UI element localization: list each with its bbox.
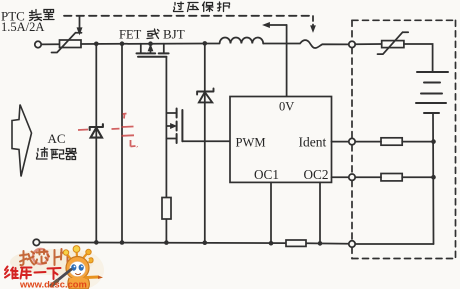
pin label PWM xyxy=(236,135,266,149)
gate resistor R1 (vertical) xyxy=(162,198,171,220)
eyes xyxy=(71,264,76,270)
glyph 维 xyxy=(5,267,18,279)
wire battery negative down xyxy=(432,113,435,244)
pin label OC2 xyxy=(304,167,329,182)
watermark artistic text 找芯片 xyxy=(20,249,68,266)
wire terminal to R3 and R3 to battery line xyxy=(355,141,433,143)
battery terminal circle bottom xyxy=(349,241,355,247)
svg-text:OC1: OC1 xyxy=(254,167,279,182)
svg-text:BJT: BJT xyxy=(163,27,185,42)
arrow pointing left above rail xyxy=(263,23,286,28)
svg-text:FET: FET xyxy=(119,28,142,42)
glyph 过 xyxy=(174,2,184,12)
glyph 找 xyxy=(20,251,34,265)
glyph 护 xyxy=(218,2,230,12)
wire OC2-level right pin to terminal xyxy=(332,176,349,178)
gate pulldown branch: Q1 gate down to Q2 and resistor xyxy=(165,57,167,243)
svg-text:PWM: PWM xyxy=(236,135,266,149)
glyph 一 xyxy=(35,271,46,274)
wire top rail (PTC to inductor) xyxy=(81,43,205,46)
watermark halo xyxy=(10,249,94,275)
bottom rail wire xyxy=(40,242,349,243)
wire 0V sense branch vertical xyxy=(286,25,288,97)
glyph 装 xyxy=(30,10,42,21)
inductor L1 xyxy=(205,38,263,44)
junction gate resistor / bottom rail xyxy=(164,240,169,245)
pin label 0V xyxy=(279,100,294,114)
ident series resistor R3 xyxy=(381,138,402,145)
node dot top of second branch xyxy=(120,41,125,46)
wire pack PTC to battery xyxy=(404,44,433,72)
svg-text:1.5A/2A: 1.5A/2A xyxy=(1,20,44,34)
battery terminal circle top xyxy=(349,41,355,47)
node dot Q1 body to rail xyxy=(148,41,153,46)
junction zener branch / bottom rail xyxy=(203,240,208,245)
Q1 body stub with arrow xyxy=(150,48,152,53)
hood xyxy=(66,257,89,280)
glyph 保 xyxy=(203,2,214,12)
watermark red text 维库一下 xyxy=(5,267,61,280)
wire Q2 gate to PWM pin xyxy=(182,140,230,142)
junction TVS branch / bottom rail xyxy=(94,240,99,245)
PTC thermistor RT1 xyxy=(52,33,82,53)
red watermark fragments mid-left xyxy=(78,114,138,148)
output terminal circle bottom-left xyxy=(33,239,39,245)
AC adapter block arrow xyxy=(12,105,32,177)
junction second branch / bottom rail xyxy=(120,240,125,245)
mouth xyxy=(76,274,81,275)
body xyxy=(68,278,89,289)
svg-text:Ident: Ident xyxy=(299,135,327,150)
wire top rail left (terminal to PTC) xyxy=(41,43,59,45)
arm with rod xyxy=(86,276,98,280)
wire terminal to pack PTC xyxy=(355,43,382,45)
junction OC2 pin / bottom rail xyxy=(318,241,323,246)
pin label OC1 xyxy=(254,167,279,182)
switching transistor Q2 (N-MOSFET) drain stub xyxy=(166,112,175,114)
svg-text:0V: 0V xyxy=(279,100,294,114)
Q1 drain stub xyxy=(163,44,165,53)
pin label Ident xyxy=(299,135,327,150)
wire terminal to R4 and R4 to battery line xyxy=(355,176,433,178)
svg-text:OC2: OC2 xyxy=(304,167,329,182)
Q2 channel segments xyxy=(176,109,178,144)
wire second branch vertical xyxy=(121,44,123,243)
junction OC1 pin / bottom rail xyxy=(269,241,274,246)
label 过压保护 xyxy=(174,2,230,12)
wire rail after inductor with wavy section xyxy=(263,40,349,48)
battery terminal circle ident xyxy=(349,138,355,144)
dark sword xyxy=(56,270,71,282)
label AC 适配器 xyxy=(48,131,66,146)
zener diode D2 xyxy=(197,89,213,103)
glyph 配 xyxy=(51,150,64,160)
pack PTC thermistor RT2 xyxy=(378,32,409,54)
wire OC2 pin down xyxy=(319,182,321,243)
pass transistor Q1 (P-FET) source stub xyxy=(140,44,142,53)
input terminal circle left-top xyxy=(35,41,41,47)
arrow from dashed line down to PTC xyxy=(77,16,82,34)
battery BT1 plates xyxy=(416,72,448,113)
wire bottom terminal into pack xyxy=(355,243,433,245)
Q2 source stub xyxy=(166,138,175,140)
glyph 器 xyxy=(66,149,77,160)
svg-text:www.dzsc.com: www.dzsc.com xyxy=(19,279,87,289)
mascot cartoon xyxy=(52,246,104,289)
glyph 下 (long top stroke) xyxy=(48,268,61,279)
arrow from dashed line corner down at right xyxy=(311,16,316,32)
svg-text:AC: AC xyxy=(48,131,66,146)
battery pack dashed enclosure xyxy=(352,20,456,258)
pack resistor R4 xyxy=(381,174,402,181)
glyph 置 xyxy=(44,10,55,20)
PWM controller U1 box xyxy=(230,97,332,183)
glyph 适 xyxy=(37,148,48,160)
label PTC 装置 1.5A/2A xyxy=(1,9,44,35)
Q2 gate bar xyxy=(181,110,183,141)
battery terminal circle oc2 xyxy=(349,174,355,180)
glyph 芯 xyxy=(36,250,50,264)
crown stalks xyxy=(67,250,88,258)
snubber branch vertical with zener xyxy=(204,43,206,242)
Q1 gate bar xyxy=(138,56,166,58)
glyph 片 xyxy=(55,249,68,266)
glyph 压 xyxy=(188,3,199,12)
TVS zener D1 xyxy=(90,124,103,137)
watermark stamp ring xyxy=(33,249,48,264)
node dot top of left TVS branch xyxy=(94,42,99,47)
wire Ident pin to terminal xyxy=(332,141,349,143)
wire left TVS branch vertical xyxy=(95,44,97,243)
node dot R3 to battery line xyxy=(431,139,436,144)
node dot before inductor xyxy=(203,41,208,46)
node dot R4 to battery line xyxy=(431,175,436,180)
wire OC1 pin down xyxy=(270,182,272,243)
dashed overvoltage control line xyxy=(64,15,313,17)
label FET 或 BJT xyxy=(119,27,185,42)
Q2 body stub with arrow xyxy=(166,125,170,127)
glyph 库 xyxy=(21,268,32,279)
face xyxy=(70,262,86,277)
Q1 channel segments xyxy=(137,52,169,54)
current sense resistor R2 (in bottom rail) xyxy=(286,240,306,246)
glyph 或 xyxy=(147,29,159,39)
